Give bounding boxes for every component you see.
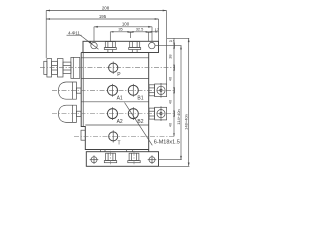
- ext line flange bottom: [159, 165, 190, 167]
- tie-rod nut top 1: [104, 42, 116, 53]
- dimension 195: [46, 14, 158, 41]
- svg-text:4-Φ11: 4-Φ11: [68, 30, 80, 35]
- port B2: [128, 107, 138, 120]
- tie-rod bolt bottom 1: [104, 151, 116, 165]
- port B1: [128, 84, 138, 97]
- outlet stubs: [101, 150, 133, 152]
- top flange hole right: [149, 42, 155, 48]
- port A1: [108, 84, 118, 97]
- chain dim line right: [168, 38, 175, 136]
- dimension 208: [46, 5, 166, 84]
- tie-rod nut top 2: [129, 42, 141, 53]
- T-section left tab: [81, 130, 85, 140]
- body joint line inlet: [81, 57, 149, 59]
- dimension row 35 / 32.5 / 17: [110, 27, 159, 42]
- port A2: [108, 107, 118, 120]
- relief adjuster stack (inlet section): [44, 57, 80, 78]
- svg-text:17: 17: [155, 27, 159, 32]
- leader 6-M18x1.5: [125, 103, 181, 146]
- dimension 148+40n: [184, 38, 190, 166]
- port P: [109, 62, 118, 74]
- svg-text:T: T: [118, 141, 121, 147]
- svg-text:B1: B1: [137, 96, 143, 102]
- bottom flange plate: [86, 152, 158, 167]
- svg-text:148+40n: 148+40n: [184, 114, 189, 130]
- right ref line top: [167, 37, 189, 39]
- ext line bottom hole row: [159, 159, 182, 161]
- svg-text:195: 195: [99, 14, 107, 19]
- dimension 114+40n: [176, 46, 182, 160]
- svg-text:32.5: 32.5: [136, 27, 144, 32]
- centerline row A2/B2: [52, 113, 175, 115]
- svg-text:38: 38: [168, 54, 173, 58]
- tie-rod bolt bottom 2: [128, 151, 140, 165]
- main valve body: [81, 53, 149, 152]
- body inner left line: [82, 53, 84, 127]
- dimension 100: [94, 22, 152, 42]
- check valve plug row 1: [149, 83, 167, 98]
- top flange hole left: [91, 42, 97, 48]
- bottom flange hole right: [148, 155, 157, 164]
- spool cap bell section 1: [59, 82, 82, 99]
- centerline row A1/B1: [52, 89, 175, 91]
- svg-text:114+40n: 114+40n: [176, 109, 181, 124]
- right ref line flange-hole row: [155, 45, 181, 47]
- body joint line 3: [85, 124, 148, 126]
- check valve plug row 2: [149, 106, 167, 121]
- svg-text:35: 35: [118, 27, 122, 32]
- bottom flange hole left: [90, 155, 99, 164]
- svg-text:100: 100: [122, 22, 130, 27]
- svg-text:208: 208: [102, 5, 110, 10]
- centerline T row: [74, 135, 175, 137]
- top flange plate: [83, 41, 159, 52]
- svg-text:A1: A1: [117, 96, 123, 102]
- label 4-phi11 with leader: [67, 30, 99, 49]
- body joint line 2: [81, 101, 149, 103]
- svg-text:A2: A2: [117, 119, 123, 125]
- centerline P row: [40, 67, 175, 69]
- body joint line 1: [81, 78, 149, 80]
- svg-text:6-M18x1.5: 6-M18x1.5: [154, 139, 180, 145]
- spool cap bell section 2: [59, 105, 82, 122]
- port T: [109, 130, 118, 142]
